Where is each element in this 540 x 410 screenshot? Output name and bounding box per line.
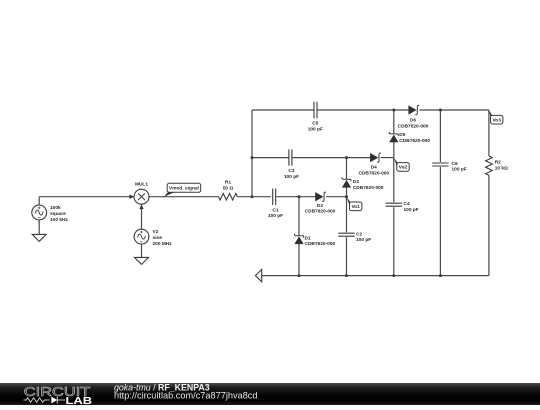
flag Vo3: [489, 110, 503, 124]
wire C6 to bottom line: [439, 167, 441, 276]
wire D1 to bottom line: [298, 244, 300, 276]
diode D1: [294, 234, 335, 248]
diode D4: [358, 153, 389, 177]
svg-text:100 pF: 100 pF: [268, 213, 283, 219]
svg-text:C5: C5: [312, 121, 318, 127]
resistor R2: [486, 156, 508, 175]
wire V2 bottom to ground: [141, 244, 143, 258]
node junction bottom C6: [439, 274, 442, 277]
svg-text:100 pF: 100 pF: [308, 127, 323, 133]
wire top line down to C6: [439, 110, 441, 162]
wire C1 to node B: [277, 196, 316, 198]
svg-text:Vmod_signal: Vmod_signal: [169, 186, 199, 192]
svg-text:100 pF: 100 pF: [284, 174, 299, 180]
wire node B down to D1: [298, 197, 300, 236]
diode D5: [389, 132, 430, 144]
wire second line left of C3: [252, 157, 289, 159]
node junction bottom C4: [392, 274, 395, 277]
diode D3: [342, 177, 384, 191]
capacitor C4: [386, 201, 419, 213]
wire top line down to D5: [393, 110, 395, 134]
label V2 value: [153, 229, 173, 247]
resistor R1: [219, 180, 238, 200]
svg-text:CDB7620-000: CDB7620-000: [353, 185, 384, 191]
ground below V1: [32, 234, 46, 241]
wire main line down to C2: [346, 197, 348, 233]
voltage source V2: [134, 229, 149, 244]
wire top line D6 to corner: [420, 109, 489, 111]
svg-text:100 pF: 100 pF: [356, 237, 371, 243]
node junction left rail second line: [251, 156, 254, 159]
svg-text:D1: D1: [305, 235, 311, 241]
svg-text:CDB7620-000: CDB7620-000: [305, 241, 336, 247]
wire D5 to second line: [393, 142, 395, 158]
svg-text:100k: 100k: [50, 205, 61, 211]
svg-text:sine: sine: [153, 235, 163, 241]
CircuitLab logo resistor zigzag: [24, 398, 50, 402]
svg-text:CDB7620-000: CDB7620-000: [358, 171, 389, 177]
wire V1 top to main line corner: [38, 197, 40, 206]
svg-text:Vo3: Vo3: [492, 118, 501, 124]
wire R2 to bottom corner: [488, 175, 490, 275]
wire V1 bottom to ground: [38, 220, 40, 235]
svg-text:200 MHz: 200 MHz: [153, 241, 173, 247]
node B junction C1-D2-D1: [298, 195, 301, 198]
wire left rail: [251, 110, 253, 197]
svg-text:D4: D4: [371, 165, 377, 171]
node junction bottom D1: [298, 274, 301, 277]
svg-text:CDB7620-000: CDB7620-000: [305, 209, 336, 215]
svg-text:C2: C2: [356, 231, 362, 237]
wire main line from V1 to MUL1: [39, 196, 131, 198]
capacitor C6: [432, 161, 467, 173]
capacitor C1: [268, 189, 283, 220]
svg-text:CDB7620-000: CDB7620-000: [399, 138, 430, 144]
flag Vo2: [394, 158, 409, 172]
label V1 value: [50, 205, 68, 223]
svg-text:http://circuitlab.com/c7a877jh: http://circuitlab.com/c7a877jhva8cd: [114, 391, 258, 401]
svg-text:100 pF: 100 pF: [404, 207, 419, 213]
ground below V2: [135, 257, 149, 264]
svg-text:LAB: LAB: [66, 396, 93, 405]
flag Vo1: [347, 197, 362, 211]
wire D2 to node C: [326, 196, 346, 198]
wire R1 to node A: [237, 196, 271, 198]
svg-text:square: square: [50, 211, 66, 217]
flag Vmod_signal: [164, 183, 201, 197]
wire second line down to C4: [393, 158, 395, 203]
svg-text:CDB7620-000: CDB7620-000: [398, 123, 429, 129]
svg-text:D5: D5: [399, 132, 405, 138]
svg-text:100 kHz: 100 kHz: [50, 217, 68, 223]
svg-text:C1: C1: [272, 207, 278, 213]
svg-text:R1: R1: [225, 180, 231, 186]
capacitor C2: [338, 231, 371, 243]
diode D6: [398, 105, 429, 129]
svg-text:C6: C6: [452, 161, 458, 167]
multiplier MUL1: [134, 182, 149, 205]
wire top line left of C5: [252, 109, 314, 111]
svg-text:10 kΩ: 10 kΩ: [495, 165, 508, 171]
svg-text:C3: C3: [288, 168, 294, 174]
node junction top line C6 branch: [439, 109, 442, 112]
svg-text:Vo1: Vo1: [351, 204, 360, 210]
svg-text:D2: D2: [317, 203, 323, 209]
wire bottom line: [262, 275, 489, 277]
svg-text:V2: V2: [153, 229, 159, 235]
diode D2: [305, 192, 336, 215]
capacitor C3: [284, 149, 299, 180]
node junction second line D4 branch: [345, 156, 348, 159]
wire top line C5 to D6: [317, 109, 409, 111]
net arrow terminal on bottom line: [255, 269, 261, 281]
wire arrow into MUL1: [130, 195, 135, 199]
wire second line D4 to corner: [381, 157, 394, 159]
svg-text:C4: C4: [404, 201, 410, 207]
CircuitLab logo diode: [51, 397, 57, 404]
node C junction D2-D3-C2-Vo1: [345, 195, 348, 198]
voltage source V1: [32, 205, 47, 220]
node junction bottom C2: [345, 274, 348, 277]
wire V2 to MUL1: [141, 204, 143, 229]
svg-text:D6: D6: [410, 118, 416, 124]
svg-text:D3: D3: [353, 179, 359, 185]
svg-text:Vo2: Vo2: [399, 165, 408, 171]
wire MUL1 to R1: [149, 196, 219, 198]
wire arrow into MUL1 from V2: [139, 205, 143, 210]
svg-text:R2: R2: [495, 159, 501, 165]
wire node C3line down to D3: [346, 158, 348, 180]
footer bar: [0, 383, 540, 405]
node A junction R1-C1-left rail: [251, 195, 254, 198]
wire C4 to bottom line: [393, 207, 395, 275]
capacitor C5: [308, 102, 323, 133]
wire top corner down to R2: [488, 110, 490, 156]
node junction top line D5 branch: [392, 109, 395, 112]
svg-text:50 Ω: 50 Ω: [223, 186, 234, 192]
wire D3 to main line: [346, 187, 348, 196]
wire C2 to bottom line: [346, 237, 348, 275]
wire second line C3 to D4: [292, 157, 370, 159]
svg-text:100 pF: 100 pF: [452, 167, 467, 173]
svg-text:MUL1: MUL1: [135, 182, 148, 188]
